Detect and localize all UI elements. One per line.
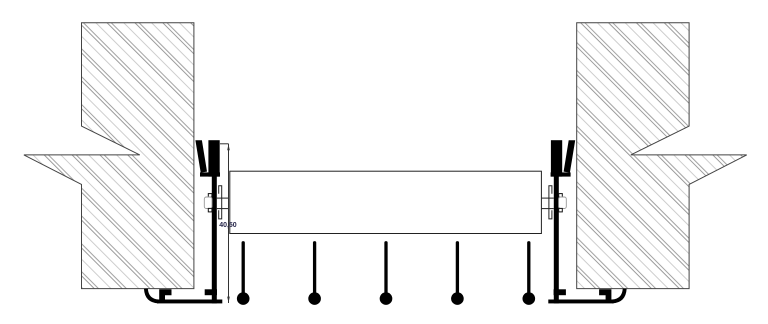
- dimension extension tick: [220, 143, 229, 145]
- door leaf panel: [230, 171, 542, 233]
- right wall (hatched masonry with break symbol): [577, 23, 747, 289]
- left wall (hatched masonry with break symbol): [24, 23, 194, 289]
- svg-text:40,50: 40,50: [219, 222, 237, 229]
- dimension arrow up: [227, 144, 230, 150]
- floor anchor pin 4: [451, 243, 464, 305]
- floor anchor pin 5: [523, 243, 536, 305]
- dimension line: [228, 144, 230, 303]
- floor anchor pin 1: [237, 243, 250, 305]
- floor anchor pin 3: [380, 243, 393, 305]
- left frame profile assembly: [146, 140, 229, 303]
- right frame profile assembly (mirrored): [542, 140, 625, 303]
- floor anchor pin 2: [308, 243, 321, 305]
- dimension arrow down: [227, 297, 230, 303]
